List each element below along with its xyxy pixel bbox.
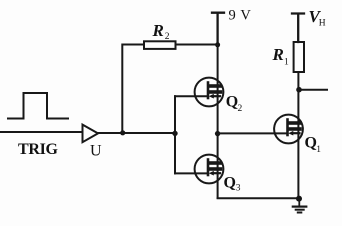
svg-text:2: 2 bbox=[165, 32, 170, 42]
svg-text:Q: Q bbox=[226, 94, 238, 111]
svg-text:9 V: 9 V bbox=[229, 8, 252, 24]
wire: R2 to 9V rail bbox=[176, 44, 218, 46]
node: R2 / 9V rail junction bbox=[215, 42, 220, 47]
wire: output stub to the right bbox=[299, 89, 327, 91]
node: gate tee junction bbox=[172, 131, 177, 136]
svg-text:H: H bbox=[319, 19, 326, 29]
wire: buffer output line bbox=[98, 132, 176, 134]
svg-text:1: 1 bbox=[316, 145, 321, 155]
buffer U bbox=[83, 125, 99, 143]
svg-text:1: 1 bbox=[284, 57, 289, 67]
svg-text:Q: Q bbox=[224, 175, 236, 192]
resistor R1 bbox=[294, 42, 304, 72]
wire: VH rail down through Q1 to ground bbox=[297, 90, 299, 199]
VH supply terminal bbox=[292, 14, 304, 43]
9V supply terminal bbox=[212, 13, 224, 45]
transistor Q3 bbox=[195, 155, 224, 184]
wire: Q2 gate lead bbox=[175, 95, 208, 97]
svg-text:R: R bbox=[272, 45, 284, 64]
svg-text:3: 3 bbox=[236, 183, 241, 193]
node: output node junction bbox=[296, 87, 302, 93]
wire: bottom source line bbox=[218, 197, 299, 199]
wire: Q1 gate line bbox=[218, 132, 288, 134]
wire: R2 left branch bbox=[122, 45, 144, 133]
node: totem-pole output junction bbox=[215, 131, 220, 136]
svg-text:Q: Q bbox=[305, 135, 317, 152]
node: buffer output junction bbox=[120, 130, 125, 135]
ground bbox=[293, 199, 307, 213]
resistor R2 bbox=[144, 41, 176, 49]
svg-text:TRIG: TRIG bbox=[18, 141, 59, 158]
svg-text:U: U bbox=[90, 142, 102, 159]
svg-text:R: R bbox=[152, 21, 164, 40]
svg-text:2: 2 bbox=[238, 104, 243, 114]
wire: 9V rail down through Q2 Q3 to bottom bbox=[217, 45, 219, 199]
node: ground junction bbox=[296, 196, 302, 202]
wire: R1 bottom to output node bbox=[297, 72, 299, 90]
transistor Q1 bbox=[274, 115, 303, 144]
wire: gate tee vertical bbox=[174, 96, 176, 173]
wire: trigger input line bbox=[1, 131, 82, 133]
wire: Q3 gate lead bbox=[175, 172, 208, 174]
transistor Q2 bbox=[195, 78, 224, 107]
TRIG pulse waveform bbox=[8, 93, 68, 119]
